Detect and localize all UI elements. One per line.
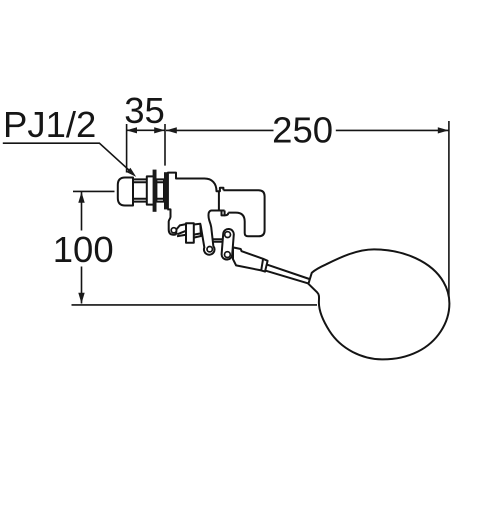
svg-text:100: 100 xyxy=(53,229,114,270)
svg-text:250: 250 xyxy=(272,110,333,151)
svg-text:PJ1/2: PJ1/2 xyxy=(3,104,96,145)
svg-text:35: 35 xyxy=(124,90,165,131)
